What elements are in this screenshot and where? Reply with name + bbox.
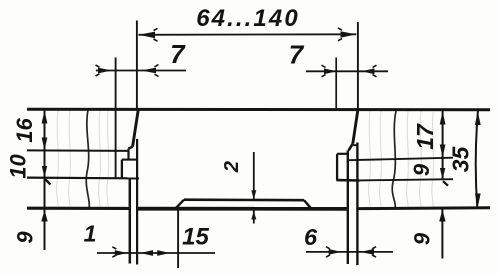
left vertical dimension line bbox=[44, 109, 46, 250]
bump right ramp bbox=[304, 200, 311, 208]
arrow 1 pointing right bbox=[115, 250, 128, 256]
arrow 6 pointing left bbox=[360, 249, 374, 255]
arrow 15 pointing right bbox=[157, 250, 170, 256]
arrow 17 bottom bbox=[440, 145, 446, 158]
svg-text:7: 7 bbox=[170, 39, 186, 69]
bottom surface line right segment bbox=[357, 206, 490, 210]
right block dark wavy break line bbox=[392, 111, 396, 208]
right slot left wall with extension below bbox=[347, 150, 349, 264]
right jaw pocket wall bbox=[336, 154, 338, 180]
left slot left wall with extension below bbox=[129, 178, 132, 264]
right jaw small top shelf bbox=[353, 144, 358, 146]
right jaw upper shelf bbox=[337, 153, 348, 155]
bottom surface line left segment bbox=[27, 207, 130, 210]
right inner vertical dimension line bbox=[442, 110, 444, 180]
right slot right wall with extension below bbox=[356, 143, 358, 266]
svg-text:2: 2 bbox=[221, 161, 243, 173]
dimension line 7 right bbox=[306, 70, 388, 72]
right block light grain streaks bbox=[368, 111, 433, 208]
right extension line 3 bbox=[360, 179, 453, 180]
extension line for 7 left bbox=[115, 58, 117, 178]
arrow 7 left pointing right bbox=[98, 68, 112, 74]
arrow 10 bottom bbox=[42, 166, 47, 177]
arrow 64...140 right bbox=[341, 31, 357, 38]
svg-text:7: 7 bbox=[289, 40, 305, 70]
arrow tail wings bbox=[96, 28, 377, 257]
right jaw face lower curve bbox=[349, 144, 353, 151]
arrow 9 right-mid bottom bbox=[440, 168, 445, 179]
top surface line bbox=[27, 108, 490, 112]
tick at left line3 crossing bbox=[45, 179, 51, 185]
left jaw step vertical bbox=[127, 149, 129, 160]
arrow 2 top bbox=[251, 190, 256, 199]
arrow 6 pointing right bbox=[329, 249, 342, 255]
svg-text:9: 9 bbox=[13, 231, 38, 244]
extension line for 15 bbox=[177, 209, 179, 268]
bottom dimension line 6 bbox=[306, 251, 393, 253]
arrow 1 pointing left / 15 left bbox=[140, 250, 153, 256]
svg-text:35: 35 bbox=[448, 146, 474, 173]
extension line above left jaw bbox=[136, 21, 138, 110]
arrow 64...140 left bbox=[139, 32, 155, 39]
arrow 2 bottom bbox=[251, 211, 256, 220]
extension line for 7 right bbox=[335, 58, 337, 110]
right outer vertical dimension line 35 bbox=[476, 110, 478, 207]
bump left ramp bbox=[176, 200, 185, 209]
right jaw pocket bottom bar bbox=[336, 179, 359, 182]
bottom surface line middle segment (channel base) bbox=[137, 207, 347, 211]
svg-text:16: 16 bbox=[12, 118, 37, 143]
tick at right line3 crossing bbox=[443, 181, 448, 186]
arrow 16 top bbox=[42, 110, 48, 123]
arrow 35 bottom bbox=[475, 194, 481, 207]
bump plateau bbox=[184, 198, 304, 201]
left jaw face bbox=[133, 109, 139, 146]
svg-text:10: 10 bbox=[6, 154, 31, 179]
svg-text:17: 17 bbox=[412, 123, 438, 150]
bottom dimension line 1 and 15 bbox=[97, 252, 215, 254]
arrow 9 right bottom bbox=[439, 210, 445, 222]
svg-text:15: 15 bbox=[182, 224, 209, 251]
svg-text:64...140: 64...140 bbox=[196, 5, 300, 32]
svg-text:9: 9 bbox=[410, 232, 435, 245]
svg-text:1: 1 bbox=[84, 221, 97, 247]
svg-text:6: 6 bbox=[304, 224, 318, 250]
svg-text:9: 9 bbox=[409, 163, 434, 176]
dimension line 2 upper part bbox=[253, 152, 255, 199]
right bottom 9 dimension line bbox=[441, 208, 443, 258]
arrow 35 top bbox=[475, 111, 481, 125]
left slot right wall with extension below bbox=[136, 139, 138, 265]
arrow 17 top bbox=[440, 111, 446, 124]
arrow 7 right pointing right bbox=[324, 68, 336, 74]
dimension line 64...140 bbox=[139, 33, 357, 36]
extension line above right jaw bbox=[357, 22, 359, 110]
left block light grain streaks bbox=[56, 110, 108, 208]
arrow 16 bottom bbox=[42, 138, 48, 151]
left jaw pocket wall bbox=[121, 160, 123, 178]
dimension line 7 left bbox=[96, 70, 186, 72]
arrow 7 left pointing left bbox=[142, 68, 157, 74]
dimension line 2 lower stub bbox=[253, 211, 255, 224]
arrow 7 right pointing left bbox=[362, 68, 375, 74]
arrow 9 left bottom bbox=[41, 210, 47, 222]
left extension line 2 bbox=[27, 149, 128, 152]
right jaw face bbox=[353, 110, 358, 144]
left block dark wavy break line bbox=[86, 110, 89, 208]
left jaw step diagonal bbox=[129, 147, 133, 149]
left extension line 3 / pocket bottom bbox=[27, 177, 139, 180]
left jaw pocket shelf bbox=[122, 159, 137, 161]
right extension line 2 / shelf bbox=[349, 158, 453, 161]
